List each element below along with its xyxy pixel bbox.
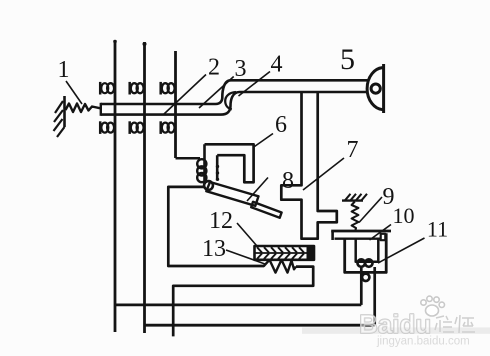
bearing rollers station 3 top — [161, 82, 175, 95]
bearing rollers station 1 bottom — [100, 121, 114, 134]
label 4 — [239, 52, 283, 97]
pivot of lever — [204, 181, 213, 190]
svg-text:4: 4 — [271, 52, 283, 78]
coil wire nubs — [216, 165, 219, 181]
svg-text:12: 12 — [209, 208, 233, 234]
svg-text:5: 5 — [340, 43, 355, 76]
wire rail A (to bearing line 1) — [115, 303, 361, 306]
svg-text:11: 11 — [427, 217, 448, 242]
svg-text:Baidu: Baidu — [359, 309, 431, 339]
svg-text:2: 2 — [208, 55, 220, 81]
bearing rollers station 2 bottom — [130, 121, 144, 134]
svg-text:6: 6 — [275, 112, 287, 138]
label 9 — [359, 184, 395, 223]
svg-text:7: 7 — [347, 137, 359, 163]
spring 9 (contact spring) — [352, 202, 359, 231]
bearing station 3 vertical line — [174, 51, 177, 158]
bearing station 1 vertical line — [114, 40, 117, 332]
electromagnet yoke 6 — [205, 144, 254, 182]
label 12 — [209, 208, 257, 246]
spring 1 (return spring at rod left end) — [66, 104, 101, 113]
label 2 — [164, 55, 220, 115]
svg-text:1: 1 — [58, 57, 70, 83]
label 1 — [58, 57, 83, 104]
contact holder 10 (plate and box) — [331, 231, 391, 272]
wire from pivot to loop (left and down) — [168, 187, 264, 266]
left contact wire down — [360, 267, 363, 305]
coil core — [205, 144, 218, 184]
lever 8 — [206, 182, 281, 218]
label 8 — [247, 168, 294, 201]
wire rail B (to bearing line 2) — [145, 324, 375, 327]
rod (lower shaft, items 2/3) with S-bend 4 into upper rod — [101, 80, 368, 116]
svg-text:13: 13 — [202, 236, 226, 262]
right contact wire down — [373, 267, 376, 325]
wall anchor (fixed support, left) — [54, 96, 65, 137]
label 7 — [303, 137, 359, 190]
svg-text:jingyan.baidu.com: jingyan.baidu.com — [376, 336, 470, 348]
wire loop continues right, down, left, down — [173, 267, 313, 337]
armature bar 7 with cross foot — [281, 93, 337, 239]
bearing rollers station 1 top — [100, 82, 114, 95]
svg-text:10: 10 — [393, 203, 415, 228]
bearing rollers station 2 top — [130, 82, 144, 95]
coil loops — [197, 159, 206, 182]
bearing station 2 vertical line — [143, 42, 146, 333]
label 13 — [202, 236, 265, 264]
label 6 — [255, 112, 288, 147]
label 3 — [199, 56, 247, 108]
label 11 — [378, 217, 448, 264]
diaphragm bell 5 at rod right end — [367, 64, 384, 113]
spring 13 (zigzag in wire) — [264, 260, 297, 273]
svg-text:3: 3 — [235, 56, 247, 82]
bearing rollers station 3 bottom — [161, 121, 175, 134]
svg-text:8: 8 — [282, 168, 294, 194]
label 10 — [370, 203, 415, 240]
friction pad 12 (hatched bar) — [255, 246, 315, 260]
wire from bearing 3 down to coil — [176, 157, 201, 160]
anchor 9 (fixed support above contact spring) — [342, 194, 367, 201]
contacts 11 (contact points) — [358, 259, 373, 281]
watermark baidu — [302, 296, 490, 347]
